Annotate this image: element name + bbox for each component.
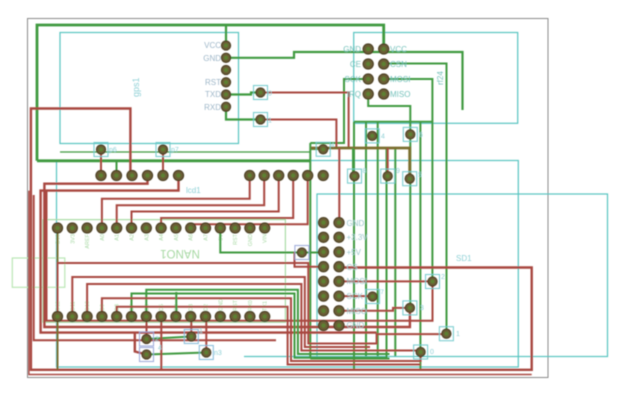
gps1 pin GND	[221, 53, 230, 62]
SD1 pin MISO (right)	[334, 306, 344, 316]
gps1 pin NC	[221, 65, 230, 74]
via jp7	[156, 143, 170, 157]
wire thin green y152	[60, 151, 310, 153]
bus line 1	[58, 263, 447, 344]
SD1 pin SCK (right)	[334, 291, 344, 301]
NANO1 pin RX0	[245, 311, 255, 321]
gps1 pin RXD	[221, 102, 230, 111]
NANO1 pin D2	[200, 311, 210, 321]
svg-text:VCC: VCC	[204, 41, 221, 50]
wire grid row7 to pad3	[339, 308, 410, 311]
wire gps VCC stub	[225, 25, 227, 46]
rf24 pin CSN	[379, 59, 389, 69]
NANO1 pin 3V3	[67, 223, 77, 233]
via X1	[316, 142, 330, 156]
wire NANO pad7 to jp2	[146, 317, 148, 340]
SD1 pin GND (right)	[334, 218, 344, 228]
via jp1	[254, 113, 268, 127]
svg-text:+5V: +5V	[347, 248, 362, 257]
wire lcd-NANO stair 1	[102, 176, 250, 229]
svg-text:4: 4	[381, 134, 385, 141]
via sd0	[414, 345, 428, 359]
SD1 pin +5V (left)	[318, 247, 328, 257]
wire jp7 to lcd pad5	[162, 150, 164, 176]
wire green stub lcd pad2	[116, 161, 118, 176]
bus line 3	[87, 284, 421, 351]
svg-text:A5: A5	[174, 234, 180, 241]
svg-text:VIN: VIN	[263, 234, 269, 243]
NANO1 pin D13	[52, 223, 62, 233]
wire NANO 5V to via	[220, 228, 323, 253]
svg-text:A0: A0	[100, 234, 106, 241]
via jp4	[365, 129, 379, 143]
svg-text:MISO: MISO	[390, 90, 410, 99]
wire jp8 feed	[352, 148, 354, 176]
lcd1 pin 10	[288, 170, 298, 180]
wire jp4b to jp3	[147, 353, 207, 355]
lcd1 pin 5	[158, 170, 168, 180]
lcd1 pin 4	[142, 170, 152, 180]
wire NANO pad1 to bottom rail	[57, 317, 59, 370]
bus line 7	[117, 307, 421, 365]
svg-text:GND: GND	[248, 234, 254, 246]
wire lcd pad6 loop	[41, 176, 377, 333]
SD1 pin +3.3V (right)	[334, 232, 344, 242]
lcd1 pin 6	[173, 170, 183, 180]
wire jp6 to lcd pad1	[100, 150, 102, 176]
wire jp2 to jp1b	[147, 337, 192, 340]
wire green to via X1	[310, 148, 323, 150]
svg-text:RXD: RXD	[204, 103, 221, 112]
SD1 pin CS (left)	[318, 262, 328, 272]
via jp3	[199, 346, 213, 360]
wire red second bottom	[29, 191, 532, 375]
svg-text:VCC: VCC	[390, 45, 407, 54]
svg-text:A7: A7	[204, 234, 210, 241]
via jp6	[94, 143, 108, 157]
wire green column x354	[353, 122, 355, 370]
via jp4b	[140, 348, 154, 362]
via jp6b	[403, 127, 417, 141]
svg-text:2: 2	[441, 274, 445, 281]
NANO1 pin D5	[156, 311, 166, 321]
rf24 pin MISO	[379, 89, 389, 99]
bus line 2	[72, 277, 370, 347]
lcd1 pin 11	[303, 170, 313, 180]
wire NANO to jp3	[205, 317, 207, 353]
SD1 pin MISO (left)	[318, 306, 328, 316]
NANO1 pin RST	[230, 311, 240, 321]
via jp9	[381, 169, 395, 183]
wire green column x410	[409, 134, 411, 308]
wire green column x366	[365, 122, 367, 356]
rf24 pin GND	[363, 44, 373, 54]
NANO1 pin D11	[67, 311, 77, 321]
wire green rail y121	[354, 121, 432, 123]
wire red to grid row1	[338, 148, 340, 223]
svg-text:5: 5	[418, 172, 422, 179]
NANO1 pin A6	[186, 223, 196, 233]
svg-text:p7: p7	[171, 147, 179, 154]
wire gps RXD to jp1	[226, 107, 261, 120]
wire green column x386	[386, 148, 388, 359]
lcd1 pin 1	[96, 170, 106, 180]
SD1 pin MOSI (right)	[334, 276, 344, 286]
svg-text:RST: RST	[205, 78, 221, 87]
svg-text:rf24: rf24	[436, 71, 445, 85]
svg-text:RST: RST	[233, 233, 239, 245]
via sd1	[439, 327, 453, 341]
svg-text:1: 1	[199, 328, 203, 335]
SD1 outline bottom-left extension	[244, 356, 317, 358]
wire NANO to jp1b	[190, 317, 192, 337]
board outline	[28, 19, 549, 378]
wire red left to pad2	[47, 191, 433, 321]
svg-text:A4: A4	[159, 234, 165, 241]
svg-text:CS: CS	[347, 263, 358, 272]
NANO1 pin D4	[171, 311, 181, 321]
rf24 pin SCK	[363, 74, 373, 84]
NANO1 pin D7	[126, 311, 136, 321]
wire red left line 4	[34, 195, 276, 340]
via sd2	[426, 275, 440, 289]
SD1 pin MOSI (left)	[318, 276, 328, 286]
bus line 5	[132, 294, 387, 358]
svg-text:A2: A2	[130, 234, 136, 241]
svg-text:0: 0	[268, 91, 272, 98]
svg-text:SD1: SD1	[456, 254, 472, 263]
NANO1 pin D8	[112, 311, 122, 321]
NANO1 pin D3	[186, 311, 196, 321]
lcd1 pin 9	[274, 170, 284, 180]
wire green column x377	[377, 122, 379, 356]
wire green column x395	[394, 148, 396, 356]
svg-text:1: 1	[456, 331, 460, 338]
wire red big loop left	[31, 109, 532, 370]
wire gps GND to right	[226, 52, 463, 110]
wire grid row5 to pad2	[339, 280, 433, 282]
module GPS1 outline	[60, 33, 239, 144]
wire lcd pad4 loop	[44, 176, 410, 328]
NANO1 pin A2	[126, 223, 136, 233]
NANO1 pin D6	[141, 311, 151, 321]
NANO1 pin D12	[52, 311, 62, 321]
lcd1 pin 3	[127, 170, 137, 180]
svg-text:lcd1: lcd1	[186, 186, 201, 195]
rf24 pin CE	[363, 59, 373, 69]
bus line 4	[146, 290, 389, 354]
wire lcd-NANO stair 4	[161, 176, 293, 229]
gps1 pin RST	[221, 78, 230, 87]
NANO1 pin D9	[97, 311, 107, 321]
NANO1 pin VIN	[260, 223, 270, 233]
via jpX	[295, 246, 309, 260]
wire grid row6 to via	[339, 295, 373, 297]
svg-text:GND: GND	[203, 54, 221, 63]
svg-text:1: 1	[268, 118, 272, 125]
NANO1 pin GND	[215, 311, 225, 321]
via jp2	[140, 332, 154, 346]
svg-text:TXD: TXD	[205, 90, 221, 99]
wire NANO pad to bottom rail	[160, 317, 162, 370]
wire lcd-NANO stair 3	[132, 176, 279, 229]
module RF24 outline	[354, 33, 518, 124]
lcd1 pin 8	[259, 170, 269, 180]
wire jp0 to right	[261, 93, 349, 149]
svg-text:SCK: SCK	[345, 75, 362, 84]
SD1 pin GND (right)	[334, 320, 344, 330]
svg-text:RX0: RX0	[248, 300, 254, 311]
wire grid row4 left stub	[295, 252, 324, 267]
svg-text:AREF: AREF	[85, 233, 91, 248]
svg-text:8: 8	[363, 168, 367, 175]
svg-text:2: 2	[155, 336, 159, 343]
wire green bottom connector	[310, 358, 389, 360]
svg-text:gps1: gps1	[131, 77, 141, 97]
NANO1 pin A5	[171, 223, 181, 233]
SD1 pin SCK (left)	[318, 291, 328, 301]
lcd1 pin 12	[318, 170, 328, 180]
svg-text:p6: p6	[109, 147, 117, 154]
wire rf24 MOSI to pad2	[384, 79, 433, 282]
svg-text:0: 0	[430, 349, 434, 356]
rf24 pin IRQ	[363, 89, 373, 99]
svg-text:SCK: SCK	[347, 292, 364, 301]
svg-text:NANO1: NANO1	[160, 247, 200, 259]
lcd1 pin 2	[111, 170, 121, 180]
NANO1 usb connector outline	[12, 258, 65, 287]
module LCD1 outline	[57, 161, 519, 368]
wire branch to jp4b	[135, 333, 147, 355]
NANO1 pin TX1	[260, 311, 270, 321]
wire lcd-NANO stair 2	[117, 176, 265, 229]
via jp0	[254, 86, 268, 100]
via jp5	[403, 172, 417, 186]
NANO1 pin D10	[82, 311, 92, 321]
svg-text:IRQ: IRQ	[347, 90, 361, 99]
NANO1 pin A1	[112, 223, 122, 233]
svg-text:RST: RST	[233, 299, 239, 311]
rf24 pin MOSI	[379, 74, 389, 84]
via sd7	[366, 290, 380, 304]
NANO1 pin A0	[97, 223, 107, 233]
svg-text:MISO: MISO	[347, 307, 367, 316]
bus line 6	[102, 298, 421, 361]
NANO1 pin A4	[156, 223, 166, 233]
wire rf24 SCK down-left	[310, 79, 368, 143]
SD1 pin GND (left)	[318, 320, 328, 330]
svg-text:MOSI: MOSI	[390, 75, 410, 84]
svg-text:GND: GND	[347, 321, 365, 330]
gps1 pin TXD	[221, 90, 230, 99]
SD1 pin +5V (right)	[334, 247, 344, 257]
rf24 pin VCC	[379, 44, 389, 54]
svg-text:GND: GND	[218, 299, 224, 311]
svg-text:A6: A6	[189, 234, 195, 241]
svg-text:9: 9	[396, 168, 400, 175]
svg-text:n3: n3	[214, 350, 222, 357]
NANO1 pin GND	[245, 223, 255, 233]
via jp1b	[184, 330, 198, 344]
svg-text:MOSI: MOSI	[347, 277, 367, 286]
NANO1 pin RST	[230, 223, 240, 233]
svg-text:A3: A3	[144, 234, 150, 241]
lcd1 pin 7	[245, 170, 255, 180]
svg-text:GND: GND	[343, 45, 361, 54]
svg-text:CSN: CSN	[390, 60, 407, 69]
SD1 pin GND (left)	[318, 218, 328, 228]
module SD1 outline	[317, 194, 608, 357]
wire olive run y148	[311, 148, 410, 179]
gps1 pin VCC	[221, 41, 230, 50]
svg-text:3: 3	[420, 305, 424, 312]
svg-text:+3.3V: +3.3V	[347, 233, 369, 242]
wire lcd-NANO stair 5	[191, 176, 308, 229]
wire NANO pad9 green stub	[175, 292, 177, 317]
svg-text:CE: CE	[350, 60, 361, 69]
NANO1 pin 5V	[215, 223, 225, 233]
svg-text:6: 6	[419, 132, 423, 139]
NANO1 pin A7	[200, 223, 210, 233]
via sd3	[403, 301, 417, 315]
svg-text:A1: A1	[115, 234, 121, 241]
svg-text:4: 4	[158, 345, 162, 352]
wire gps TXD to jp0	[226, 93, 261, 95]
NANO1 pin AREF	[82, 223, 92, 233]
wire jp1 to right	[261, 120, 337, 149]
NANO1 pin A3	[141, 223, 151, 233]
svg-text:3V3: 3V3	[70, 234, 76, 244]
svg-text:GND: GND	[347, 219, 365, 228]
module NANO1 body outline	[43, 220, 285, 323]
via jp8	[348, 169, 362, 183]
wire jp9 feed	[387, 148, 389, 176]
SD1 pin CS (right)	[334, 262, 344, 272]
wire thick green y160	[37, 159, 310, 162]
wire VCC net top rail	[37, 25, 384, 161]
SD1 pin +3.3V (left)	[318, 232, 328, 242]
wire green column x420	[419, 122, 421, 370]
wire rf24 CSN to pad1	[384, 64, 447, 334]
wire NANO D13 column	[57, 228, 59, 317]
wire rf24 IRQ to jp6b	[368, 94, 410, 134]
wire green column x310	[309, 143, 311, 359]
